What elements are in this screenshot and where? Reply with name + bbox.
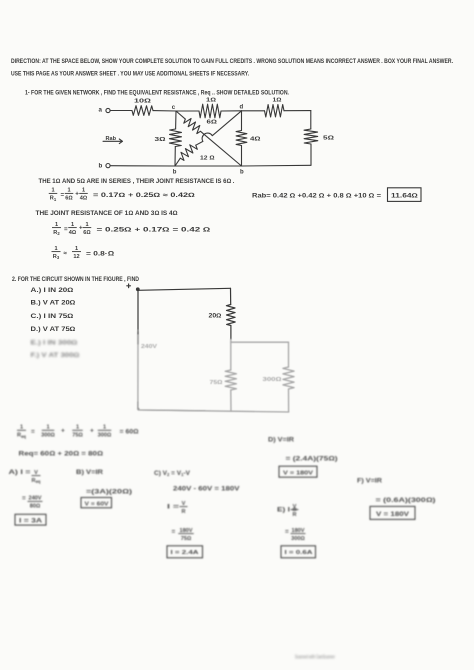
resistor 4ohm	[236, 131, 247, 146]
svg-text:Rab= 0.42 Ω +0.42 Ω + 0.8 Ω: Rab= 0.42 Ω +0.42 Ω + 0.8 Ω +10 Ω =	[252, 192, 382, 199]
wire c diagonal start	[176, 111, 185, 119]
resistor 12ohm diagonal	[180, 145, 197, 161]
bottom left corner stub	[138, 402, 205, 411]
left wire mid fade	[137, 332, 139, 344]
resistor 5ohm	[304, 129, 318, 144]
Rab arrow	[103, 139, 123, 144]
svg-text:300Ω: 300Ω	[41, 433, 55, 439]
svg-text:d: d	[240, 105, 244, 111]
svg-text:1Ω: 1Ω	[273, 98, 283, 104]
left wire upper	[137, 290, 139, 334]
svg-text:180V: 180V	[291, 528, 304, 534]
final answer box 11.64ohm	[388, 188, 422, 202]
node b terminal	[106, 164, 110, 168]
svg-text:1: 1	[75, 246, 78, 252]
svg-text:2. FOR THE CIRCUIT SHOWN IN TH: 2. FOR THE CIRCUIT SHOWN IN THE FIGURE ,…	[12, 276, 139, 283]
svg-text:= 60Ω: = 60Ω	[120, 428, 139, 435]
svg-text:1: 1	[20, 425, 23, 431]
faded wire to R300	[288, 342, 290, 367]
svg-text:+: +	[61, 427, 65, 434]
svg-text:a: a	[99, 106, 103, 113]
wire right corner down	[310, 111, 312, 129]
wire 12ohm with crossover hop to node d	[196, 111, 242, 145]
svg-text:Req: Req	[17, 433, 26, 439]
svg-text:10Ω: 10Ω	[134, 98, 152, 104]
svg-text:4Ω: 4Ω	[250, 136, 261, 142]
svg-text:Rab: Rab	[106, 136, 117, 142]
faded junction wire	[231, 339, 289, 342]
resistor 3ohm	[169, 129, 181, 147]
faded wire junction to R75	[230, 342, 232, 370]
svg-text:240V: 240V	[28, 496, 41, 502]
faded wire R75 to bottom	[230, 390, 232, 411]
svg-text:I =: I =	[167, 503, 179, 510]
svg-text:I = 3A: I = 3A	[19, 517, 43, 524]
svg-text:11.64Ω: 11.64Ω	[391, 193, 418, 200]
svg-text:+: +	[90, 427, 94, 434]
faded left wire lower	[137, 330, 139, 409]
svg-text:D.) V AT 75Ω: D.) V AT 75Ω	[31, 326, 76, 333]
wire 5ohm to bottom corner	[310, 144, 312, 165]
svg-text:V: V	[293, 504, 297, 510]
svg-text:DIRECTION: AT THE SPACE BELOW: DIRECTION: AT THE SPACE BELOW, SHOW YOUR…	[11, 58, 453, 65]
svg-text:V = 180V: V = 180V	[376, 511, 410, 518]
svg-text:12 Ω: 12 Ω	[200, 155, 215, 161]
svg-text:b: b	[99, 163, 103, 170]
svg-text:6Ω: 6Ω	[65, 196, 73, 202]
svg-text:b: b	[240, 169, 244, 175]
top wire	[138, 288, 231, 290]
wire a to R10	[110, 110, 132, 112]
svg-text:≈: ≈	[64, 250, 68, 257]
svg-text:= (2.4A)(75Ω): = (2.4A)(75Ω)	[286, 455, 338, 462]
resistor 6ohm diagonal	[184, 119, 201, 134]
wire d down	[241, 111, 243, 131]
svg-text:240V: 240V	[141, 344, 157, 350]
svg-text:B) V=IR: B) V=IR	[76, 469, 103, 476]
svg-text:THE JOINT RESISTANCE OF 1Ω AND: THE JOINT RESISTANCE OF 1Ω AND 3Ω IS 4Ω	[36, 210, 178, 217]
svg-text:1: 1	[55, 222, 58, 228]
svg-text:1: 1	[67, 188, 70, 194]
svg-text:3Ω: 3Ω	[155, 137, 167, 143]
svg-text:12: 12	[73, 254, 79, 260]
node dot top-left	[137, 288, 140, 291]
svg-text:R: R	[292, 512, 296, 518]
wire b1 diagonal start	[175, 158, 180, 166]
svg-text:D) V=IR: D) V=IR	[268, 436, 294, 443]
svg-text:I = 0.6A: I = 0.6A	[285, 550, 314, 556]
svg-text:b: b	[173, 169, 177, 175]
svg-text:F.) V AT 300Ω: F.) V AT 300Ω	[31, 352, 80, 359]
svg-text:=: =	[64, 226, 68, 233]
svg-text:1: 1	[51, 188, 54, 194]
svg-text:1Ω: 1Ω	[206, 98, 217, 104]
svg-text:R1: R1	[50, 196, 57, 202]
wire corner down to R20	[230, 288, 232, 304]
svg-text:B.) V AT 20Ω: B.) V AT 20Ω	[31, 299, 76, 306]
bottom wire	[110, 164, 311, 167]
svg-text:80Ω: 80Ω	[30, 504, 41, 510]
watermark faint	[295, 655, 335, 661]
svg-text:I = 2.4A: I = 2.4A	[171, 550, 200, 556]
svg-text:=: =	[31, 428, 35, 435]
resistor 75ohm faded	[225, 370, 236, 390]
resistor 300ohm faded	[283, 367, 294, 389]
svg-text:=: =	[172, 528, 176, 535]
svg-text:= 0.8·Ω: = 0.8·Ω	[86, 250, 114, 257]
svg-text:A.) I IN 20Ω: A.) I IN 20Ω	[31, 287, 74, 294]
svg-text:75Ω: 75Ω	[181, 536, 192, 542]
resistor 20ohm	[226, 305, 235, 326]
svg-text:75Ω: 75Ω	[72, 433, 83, 439]
svg-text:THE 1Ω AND 5Ω ARE IN SERIES ,: THE 1Ω AND 5Ω ARE IN SERIES , THEIR JOIN…	[39, 178, 235, 185]
wire R10 to node c	[153, 110, 176, 112]
svg-text:C) V2 = V1-V: C) V2 = V1-V	[154, 470, 191, 477]
svg-text:1: 1	[46, 425, 49, 431]
svg-text:20Ω: 20Ω	[209, 313, 222, 319]
faded wire R300 to bottom	[288, 389, 290, 412]
svg-text:6Ω: 6Ω	[207, 119, 218, 125]
svg-text:300Ω: 300Ω	[98, 433, 112, 439]
svg-text:Req: Req	[32, 478, 41, 484]
svg-text:C.) I IN 75Ω: C.) I IN 75Ω	[31, 313, 74, 320]
svg-text:=: =	[285, 528, 289, 535]
wire 3ohm to node b1	[174, 147, 176, 167]
svg-text:1: 1	[71, 222, 74, 228]
faded bottom wire	[138, 409, 289, 412]
svg-text:Req= 60Ω + 20Ω = 80Ω: Req= 60Ω + 20Ω = 80Ω	[19, 450, 104, 457]
wire R1b to top right corner	[284, 110, 311, 112]
wire 4ohm to node b2	[241, 146, 243, 167]
wire c to R1a	[176, 110, 199, 112]
svg-text:c: c	[172, 105, 176, 111]
svg-text:1- FOR THE GIVEN NETWORK , FIN: 1- FOR THE GIVEN NETWORK , FIND THE EQUI…	[25, 90, 289, 97]
node a terminal	[106, 108, 110, 112]
svg-text:4Ω: 4Ω	[80, 196, 88, 202]
svg-text:R: R	[181, 509, 185, 515]
svg-text:A) I =: A) I =	[9, 469, 31, 476]
svg-text:4Ω: 4Ω	[69, 230, 77, 236]
svg-text:=(3A)(20Ω): =(3A)(20Ω)	[86, 488, 132, 495]
svg-text:E.) I IN 300Ω: E.) I IN 300Ω	[31, 339, 78, 346]
resistor 1ohm c-d	[199, 104, 221, 118]
svg-text:+: +	[75, 190, 79, 197]
svg-text:V: V	[34, 470, 38, 476]
svg-text:300Ω: 300Ω	[263, 377, 283, 383]
svg-text:1: 1	[54, 246, 57, 252]
svg-text:V = 60V: V = 60V	[85, 501, 109, 507]
svg-text:=: =	[22, 495, 26, 502]
svg-text:1: 1	[103, 425, 106, 431]
svg-text:= 0.25Ω + 0.17Ω = 0.42 Ω: = 0.25Ω + 0.17Ω = 0.42 Ω	[97, 226, 211, 233]
wire d to R1b	[242, 110, 265, 112]
wire c down	[175, 111, 177, 129]
svg-text:5Ω: 5Ω	[323, 136, 335, 142]
svg-text:180V: 180V	[179, 528, 192, 534]
svg-text:= 0.17Ω + 0.25Ω ≈ 0.42Ω: = 0.17Ω + 0.25Ω ≈ 0.42Ω	[93, 192, 195, 199]
svg-text:R2: R2	[53, 230, 60, 236]
svg-text:V: V	[182, 501, 186, 507]
svg-text:= (0.6A)(300Ω): = (0.6A)(300Ω)	[376, 497, 436, 504]
wire diagonal to b2	[201, 131, 242, 166]
svg-text:V = 180V: V = 180V	[283, 471, 313, 477]
plus terminal	[127, 284, 131, 288]
svg-text:6Ω: 6Ω	[83, 230, 91, 236]
svg-text:USE THIS PAGE AS YOUR ANSWER S: USE THIS PAGE AS YOUR ANSWER SHEET . YOU…	[11, 70, 249, 77]
svg-text:=: =	[61, 192, 65, 199]
wire R1a to node d	[221, 110, 242, 112]
svg-text:1: 1	[82, 188, 85, 194]
svg-text:R3: R3	[53, 254, 60, 260]
wire R20 to junction	[230, 326, 232, 340]
svg-text:240V - 60V = 180V: 240V - 60V = 180V	[173, 485, 240, 492]
resistor 1ohm d-corner	[265, 105, 285, 118]
svg-text:75Ω: 75Ω	[210, 380, 224, 386]
svg-text:1: 1	[85, 222, 88, 228]
svg-text:F) V=IR: F) V=IR	[357, 477, 382, 484]
resistor R 10ohm	[132, 106, 153, 116]
svg-text:300Ω: 300Ω	[291, 536, 305, 542]
svg-text:1: 1	[76, 425, 79, 431]
svg-text:Scanned with CamScanner: Scanned with CamScanner	[295, 655, 335, 661]
